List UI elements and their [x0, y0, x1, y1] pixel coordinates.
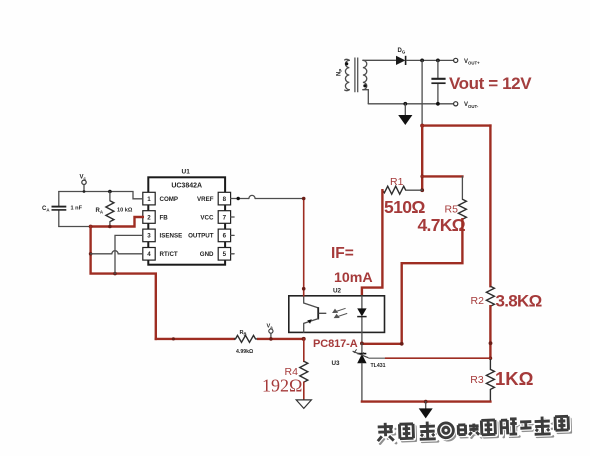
wire red R2 bottom [489, 306, 491, 358]
node dot pin3 wire joins [113, 272, 117, 276]
svg-text:VCC: VCC [200, 214, 214, 221]
svg-text:2: 2 [147, 214, 151, 221]
capacitor C_A [52, 192, 67, 227]
wire red feedback corner node [420, 124, 424, 128]
svg-text:R1: R1 [390, 176, 404, 188]
svg-text:DG: DG [398, 48, 406, 55]
svg-text:7: 7 [223, 214, 227, 221]
svg-text:6: 6 [223, 233, 227, 240]
svg-text:3.8KΩ: 3.8KΩ [496, 292, 542, 311]
terminal V_a [269, 329, 273, 339]
pin 2 FB [143, 211, 168, 224]
node dot after pin 8 [237, 197, 240, 200]
svg-text:Vc: Vc [80, 175, 87, 182]
svg-text:ISENSE: ISENSE [160, 233, 183, 240]
node dot top rail at sense tap [420, 59, 424, 63]
ground bottom [419, 402, 433, 419]
wire bottom rail left black part [59, 226, 91, 228]
wire LED cathode to TL431 [361, 332, 363, 343]
optocoupler light arrows [333, 308, 347, 317]
transformer T1 primary winding [345, 59, 350, 90]
wire red rail to optocoupler emitter [156, 338, 234, 340]
node dot LED cathode / TL431 / R5 path [360, 342, 364, 346]
node dot bottom rail at capacitor [436, 102, 440, 106]
svg-text:510Ω: 510Ω [384, 197, 425, 217]
svg-text:GND: GND [200, 251, 214, 258]
pin 5 GND [200, 248, 234, 261]
svg-text:4.99kΩ: 4.99kΩ [236, 349, 253, 355]
pin 6 OUTPUT [188, 229, 234, 242]
svg-text:R2: R2 [471, 295, 485, 307]
svg-text:NP: NP [337, 69, 344, 76]
svg-text:VREF: VREF [197, 196, 214, 203]
wire red collector line from VREF [303, 199, 305, 296]
resistor R2 [486, 286, 494, 306]
LED of U2 [357, 296, 366, 333]
node dot VREF/collector junction [302, 197, 306, 201]
svg-text:PC817-A: PC817-A [313, 338, 358, 350]
svg-text:UC3842A: UC3842A [171, 182, 202, 189]
svg-text:3: 3 [147, 233, 151, 240]
resistor R_A [106, 192, 114, 227]
pin 4 RT/CT [143, 248, 178, 261]
svg-text:4.7KΩ: 4.7KΩ [418, 215, 466, 235]
resistor R5 [458, 176, 466, 219]
node dot Vc on rail [83, 190, 86, 193]
svg-text:VOUT+: VOUT+ [464, 59, 480, 66]
terminal V_OUT+ [454, 58, 458, 62]
wire hop on VREF line [249, 195, 255, 198]
svg-text:CA: CA [42, 206, 50, 213]
pin 3 ISENSE [143, 229, 182, 242]
wire red right vertical down to R2 [489, 126, 491, 287]
output capacitor [431, 60, 445, 103]
svg-text:COMP: COMP [160, 196, 179, 203]
svg-text:RT/CT: RT/CT [160, 251, 178, 258]
svg-text:FB: FB [160, 214, 169, 221]
svg-text:RA: RA [96, 208, 104, 215]
terminal V_c [82, 180, 86, 191]
pin 8 VREF [197, 192, 231, 205]
wire TL431 ref line [368, 357, 385, 359]
wire top rail left network [59, 192, 143, 199]
pin 7 VCC [200, 211, 234, 224]
svg-text:Vout = 12V: Vout = 12V [449, 74, 532, 93]
ground open triangle under R4 [296, 400, 311, 409]
node dot R_A bottom [108, 225, 112, 229]
wire red R5 bottom path [362, 219, 463, 344]
watermark band [377, 416, 571, 444]
node dot bottom rail left [89, 225, 93, 229]
svg-text:R3: R3 [470, 374, 484, 386]
transformer secondary polarity dot [363, 84, 366, 87]
IC U1 UC3842A body [148, 177, 225, 264]
transformer core [355, 58, 358, 93]
resistor R_B [234, 335, 257, 342]
wire red R1 left to LED anode [362, 190, 383, 296]
diode D_G [396, 56, 406, 65]
phototransistor of U2 [304, 296, 326, 333]
wire secondary top to diode [363, 59, 396, 61]
svg-text:1 nF: 1 nF [71, 206, 83, 212]
node dot V_a on rail [269, 337, 273, 341]
optocoupler U2 box [289, 296, 385, 333]
node dot bottom rail at ground [424, 400, 428, 404]
wire hop over pin3 line [112, 251, 118, 254]
wire red branch to R5 [422, 175, 462, 177]
node dot R_A top [108, 190, 112, 194]
svg-text:TL431: TL431 [371, 363, 386, 369]
wire red vertical to R1/R5 [421, 126, 423, 191]
node dot R5 path to LED cathode [400, 342, 404, 346]
svg-text:1: 1 [147, 196, 151, 203]
wire pin 4 RT/CT with hop [91, 253, 143, 255]
resistor R3 [486, 358, 494, 401]
node dot pin4 wire joins [89, 252, 93, 256]
pin 1 COMP [143, 192, 178, 205]
node dot small on red rail [172, 337, 175, 340]
node dot ref line joins R3 [489, 357, 492, 360]
ground output [398, 104, 412, 125]
svg-text:R5: R5 [445, 204, 459, 216]
node dot bottom rail at ground [403, 102, 407, 106]
node dot emitter junction [302, 337, 306, 341]
terminal V_OUT- [454, 102, 458, 106]
wire VREF pin8 to optocoupler collector [231, 198, 304, 200]
svg-text:Va: Va [267, 324, 274, 330]
wire bottom output rail [368, 103, 453, 105]
svg-text:IF=: IF= [331, 245, 354, 262]
transformer primary polarity dot [345, 62, 348, 65]
transformer T1 secondary winding [363, 60, 367, 89]
svg-text:U1: U1 [182, 169, 191, 176]
svg-text:5: 5 [223, 251, 227, 258]
wire pin 3 ISENSE [115, 235, 143, 273]
wire red bottom rail TL431/R3 [362, 400, 491, 402]
svg-text:VOUT-: VOUT- [464, 102, 479, 109]
svg-text:1KΩ: 1KΩ [495, 368, 534, 389]
wire red left vertical down [91, 227, 156, 339]
node dot top rail at capacitor [436, 59, 440, 63]
wire bottom rail red part to FB [91, 217, 143, 227]
svg-text:10mA: 10mA [334, 270, 373, 286]
svg-text:4: 4 [147, 251, 151, 258]
shunt regulator TL431 U3 [353, 343, 369, 401]
node dot on collector line [302, 287, 306, 291]
node dot R2/R3 [489, 341, 493, 345]
wire sense tap vertical [421, 60, 423, 124]
wire diode to node [406, 59, 453, 61]
svg-text:10 kΩ: 10 kΩ [117, 208, 133, 214]
resistor R1 [382, 186, 422, 194]
svg-text:192Ω: 192Ω [262, 376, 302, 396]
svg-text:8: 8 [223, 196, 227, 203]
svg-text:OUTPUT: OUTPUT [188, 233, 214, 240]
node dot R1 junction [420, 188, 424, 192]
svg-text:RB: RB [240, 330, 247, 336]
svg-text:U3: U3 [332, 360, 341, 367]
node dot R5 branch [420, 175, 424, 179]
wire red top horizontal to R2 branch [422, 124, 490, 126]
resistor R4 [300, 339, 308, 400]
wire secondary bottom [363, 90, 368, 104]
svg-text:U2: U2 [333, 288, 342, 295]
